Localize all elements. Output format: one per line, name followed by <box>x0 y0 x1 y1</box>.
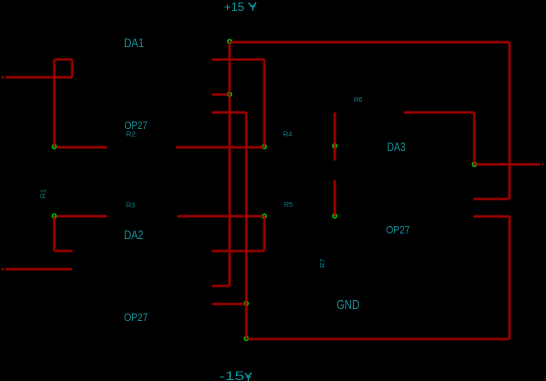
svg-text:DA3: DA3 <box>387 142 406 154</box>
svg-text:GND: GND <box>337 298 360 312</box>
svg-text:DA1: DA1 <box>124 38 144 50</box>
svg-text:R5: R5 <box>284 200 293 209</box>
svg-text:R4: R4 <box>283 129 292 138</box>
svg-text:R3: R3 <box>126 200 135 209</box>
svg-text:OP27: OP27 <box>386 225 410 237</box>
svg-text:-15: -15 <box>219 369 244 381</box>
svg-text:R7: R7 <box>318 259 327 268</box>
svg-text:OP27: OP27 <box>124 312 148 324</box>
svg-text:R6: R6 <box>354 95 363 104</box>
svg-text:R1: R1 <box>38 189 47 198</box>
svg-text:R2: R2 <box>126 129 136 138</box>
svg-text:+15: +15 <box>224 0 245 14</box>
svg-text:DA2: DA2 <box>124 230 144 242</box>
